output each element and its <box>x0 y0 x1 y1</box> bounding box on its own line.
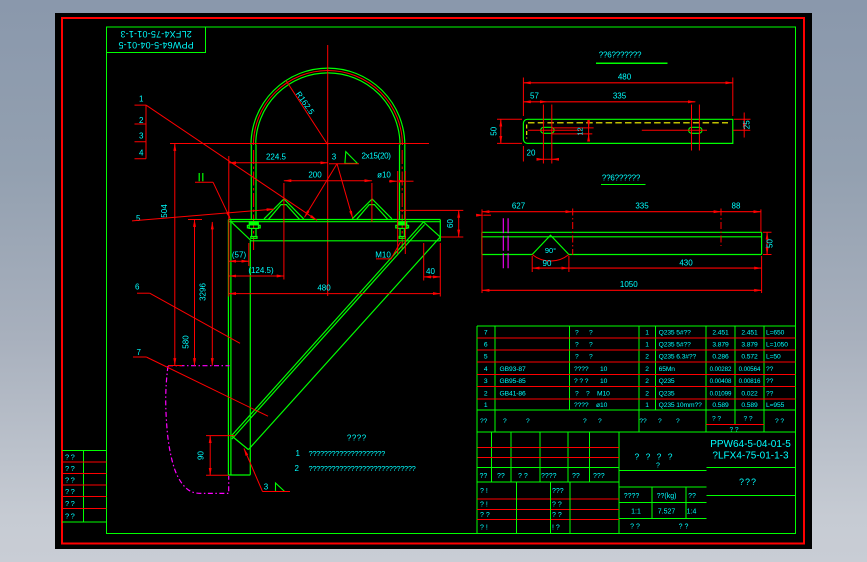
svg-text:3: 3 <box>332 153 337 162</box>
top-left mirrored title box <box>106 27 205 52</box>
bolt right <box>396 222 409 239</box>
svg-text:0.589: 0.589 <box>712 402 729 409</box>
svg-text:0.00816: 0.00816 <box>739 378 761 385</box>
arch mid red arc <box>253 71 402 146</box>
dim 480 <box>523 82 732 84</box>
svg-text:0.00282: 0.00282 <box>710 366 732 373</box>
svg-text:??: ?? <box>766 366 774 373</box>
slot left <box>541 127 554 133</box>
left tooth <box>264 199 304 219</box>
radius line R162.5 <box>286 81 328 145</box>
svg-text:? ? ?: ? ? ? <box>574 378 589 385</box>
svg-text:Q235 5#??: Q235 5#?? <box>659 329 692 336</box>
svg-text:?: ? <box>575 341 579 348</box>
svg-text:7.527: 7.527 <box>658 509 676 516</box>
svg-text:(57): (57) <box>232 251 247 260</box>
dim 3296 <box>211 222 213 366</box>
svg-text:????: ???? <box>574 366 589 373</box>
dim 57 <box>523 101 547 103</box>
svg-text:GB41-86: GB41-86 <box>500 390 526 397</box>
svg-text:?: ? <box>583 418 587 425</box>
svg-text:??6???????: ??6??????? <box>599 51 642 60</box>
dim 12 <box>552 120 594 137</box>
dim 50 <box>766 232 768 254</box>
dim 90 notch <box>532 267 569 269</box>
svg-text:?: ? <box>589 329 593 336</box>
svg-text:M10: M10 <box>597 390 610 397</box>
svg-text:5: 5 <box>484 354 488 361</box>
svg-text:? !: ? ! <box>480 502 488 509</box>
svg-text:480: 480 <box>618 73 632 82</box>
svg-text:0.00408: 0.00408 <box>710 378 732 385</box>
svg-text:L=650: L=650 <box>766 329 785 336</box>
svg-text:????: ???? <box>574 402 589 409</box>
svg-text:? ?: ? ? <box>630 524 640 531</box>
svg-text:? !: ? ! <box>480 488 488 495</box>
svg-text:PPW64-5-04-01-5: PPW64-5-04-01-5 <box>118 40 194 50</box>
notch <box>532 235 569 254</box>
svg-text:2LFX4-75-01-1-3: 2LFX4-75-01-1-3 <box>120 29 192 39</box>
svg-text:? ?: ? ? <box>730 426 739 433</box>
dim 1050 <box>482 289 762 291</box>
foot plate <box>228 474 250 476</box>
left marginal table <box>62 451 106 523</box>
svg-text:?: ? <box>526 418 530 425</box>
svg-text:ø10: ø10 <box>377 171 391 180</box>
svg-text:?: ? <box>575 354 579 361</box>
svg-text:? ? ? ?: ? ? ? ? <box>635 452 675 462</box>
svg-text:5: 5 <box>136 214 141 223</box>
svg-text:! ?: ! ? <box>552 525 560 532</box>
top dims 627/335/88 <box>482 211 573 213</box>
svg-text:??: ?? <box>65 453 76 462</box>
diagonal brace <box>232 222 440 450</box>
svg-text:????????????????????????????: ???????????????????????????? <box>309 464 416 473</box>
svg-text:90: 90 <box>543 259 552 268</box>
hidden yellow dashed <box>528 122 728 124</box>
svg-text:?: ? <box>575 329 579 336</box>
svg-text:?: ? <box>586 390 590 397</box>
svg-text:2: 2 <box>139 116 144 125</box>
beam left chamfer <box>232 222 251 240</box>
svg-text:2.451: 2.451 <box>741 329 758 336</box>
svg-text:??: ?? <box>639 418 647 425</box>
dim (57) <box>229 260 249 262</box>
svg-text:Q235: Q235 <box>659 390 675 397</box>
dim 40 <box>424 276 441 278</box>
svg-text:??: ?? <box>65 476 76 485</box>
svg-text:1:4: 1:4 <box>687 509 697 516</box>
arch inner arc <box>256 73 400 145</box>
svg-text:90: 90 <box>197 451 206 460</box>
svg-text:??: ?? <box>572 473 580 480</box>
svg-text:1: 1 <box>484 402 488 409</box>
svg-text:??: ?? <box>480 473 488 480</box>
svg-text:? ?: ? ? <box>775 418 784 425</box>
svg-text:?: ? <box>656 463 660 470</box>
right tooth <box>352 199 392 219</box>
svg-text:20: 20 <box>527 148 536 157</box>
arch legs <box>251 145 404 220</box>
svg-text:0.286: 0.286 <box>712 354 729 361</box>
svg-text:2: 2 <box>645 390 649 397</box>
svg-text:1: 1 <box>645 341 649 348</box>
svg-text:2: 2 <box>484 390 488 397</box>
svg-text:60: 60 <box>446 219 455 228</box>
svg-text:??6??????: ??6?????? <box>602 174 641 183</box>
svg-text:??: ?? <box>65 464 76 473</box>
svg-text:L=50: L=50 <box>766 354 781 361</box>
plate outline <box>523 119 732 143</box>
dim (124.5) <box>229 275 284 277</box>
svg-text:580: 580 <box>182 335 191 349</box>
green drawing frame <box>106 27 795 534</box>
dim 504 <box>174 144 176 366</box>
svg-text:??: ?? <box>65 512 76 521</box>
svg-text:1: 1 <box>645 402 649 409</box>
svg-text:?: ? <box>658 418 662 425</box>
svg-text:Q235: Q235 <box>659 378 675 385</box>
svg-text:430: 430 <box>679 258 693 267</box>
svg-text:??(kg): ??(kg) <box>657 493 677 500</box>
svg-text:504: 504 <box>160 204 169 218</box>
svg-text:12: 12 <box>576 127 585 135</box>
slot centerlines <box>528 105 581 164</box>
svg-text:? ?: ? ? <box>679 524 689 531</box>
svg-text:Q235 6.3#??: Q235 6.3#?? <box>659 354 697 361</box>
svg-text:1: 1 <box>139 95 144 104</box>
svg-text:???: ??? <box>739 477 757 487</box>
svg-text:3: 3 <box>139 131 144 140</box>
bar outline <box>482 232 762 254</box>
svg-text:?: ? <box>589 354 593 361</box>
svg-text:?: ? <box>503 418 507 425</box>
svg-text:2x15(20): 2x15(20) <box>362 152 392 161</box>
svg-text:PPW64-5-04-01-5: PPW64-5-04-01-5 <box>710 439 791 450</box>
magenta break lines <box>503 218 508 270</box>
svg-text:0.572: 0.572 <box>741 354 758 361</box>
svg-text:GB95-85: GB95-85 <box>500 378 526 385</box>
svg-text:??: ?? <box>65 487 76 496</box>
slot right <box>689 127 702 133</box>
svg-text:??: ?? <box>497 473 505 480</box>
svg-text:88: 88 <box>732 201 741 210</box>
svg-text:? ?: ? ? <box>552 512 562 519</box>
90 deg arc <box>532 255 569 262</box>
leg centerlines <box>254 150 403 252</box>
svg-text:?: ? <box>598 418 602 425</box>
svg-text:2: 2 <box>645 378 649 385</box>
arch outer arc <box>251 68 405 145</box>
VIEW1 : top right plate <box>489 51 751 164</box>
svg-text:10: 10 <box>600 366 608 373</box>
dim 60 right <box>458 210 460 237</box>
svg-text:GB93-87: GB93-87 <box>500 366 526 373</box>
svg-text:335: 335 <box>635 201 649 210</box>
svg-text:0.589: 0.589 <box>741 402 758 409</box>
svg-text:3: 3 <box>484 378 488 385</box>
svg-text:L=1050: L=1050 <box>766 341 788 348</box>
svg-text:????: ???? <box>541 473 557 480</box>
svg-text:0.022: 0.022 <box>741 390 758 397</box>
svg-text:0.00564: 0.00564 <box>739 366 761 373</box>
svg-text:7: 7 <box>137 348 142 357</box>
svg-text:?: ? <box>676 418 680 425</box>
centerlines <box>573 209 721 256</box>
beam bottom edge <box>251 240 440 242</box>
svg-text:M10: M10 <box>375 251 391 260</box>
MAIN VIEW <box>166 45 441 493</box>
svg-text:????: ???? <box>347 434 367 443</box>
dim 25 <box>743 119 745 130</box>
dim 430 <box>569 267 762 269</box>
label 11 <box>199 173 203 181</box>
svg-text:? !: ? ! <box>480 525 488 532</box>
bolt left <box>247 222 260 239</box>
svg-text:7: 7 <box>484 329 488 336</box>
svg-text:2: 2 <box>295 464 300 473</box>
svg-text:224.5: 224.5 <box>266 153 287 162</box>
dim 580 <box>194 220 196 366</box>
magenta pipe phantom outline <box>168 365 230 367</box>
dim 335 <box>547 101 695 103</box>
svg-text:L=955: L=955 <box>766 402 785 409</box>
TITLE BLOCK <box>477 432 796 534</box>
dim 224.5 <box>229 162 328 164</box>
svg-text:1: 1 <box>296 449 301 458</box>
BOM TABLE <box>477 326 796 534</box>
VIEW2 : right bar <box>482 174 774 294</box>
svg-text:1: 1 <box>645 329 649 336</box>
svg-text:????: ???? <box>624 493 640 500</box>
MAIN DIMS <box>132 95 463 492</box>
svg-text:90°: 90° <box>545 246 556 255</box>
svg-text:?LFX4-75-01-1-3: ?LFX4-75-01-1-3 <box>712 451 789 462</box>
svg-text:?: ? <box>589 341 593 348</box>
svg-text:4: 4 <box>484 366 488 373</box>
svg-text:57: 57 <box>530 92 539 101</box>
dim 90 lower <box>209 436 211 476</box>
svg-text:1:1: 1:1 <box>631 509 641 516</box>
svg-text:??: ?? <box>766 390 774 397</box>
svg-text:?: ? <box>575 390 579 397</box>
svg-text:2: 2 <box>645 366 649 373</box>
dim 50 <box>500 119 502 143</box>
dim 200 <box>284 180 372 182</box>
svg-text:??: ?? <box>688 493 696 500</box>
dim 480 main <box>229 293 440 295</box>
svg-text:???: ??? <box>552 488 564 495</box>
svg-text:? ?: ? ? <box>518 473 528 480</box>
svg-text:4: 4 <box>139 148 144 157</box>
svg-text:3.879: 3.879 <box>741 341 758 348</box>
svg-text:??: ?? <box>480 418 488 425</box>
svg-text:3.879: 3.879 <box>712 341 729 348</box>
svg-text:Q235 10mm??: Q235 10mm?? <box>659 402 703 409</box>
svg-text:? ?: ? ? <box>480 512 490 519</box>
dim 20 <box>537 158 544 160</box>
svg-text:627: 627 <box>512 201 526 210</box>
svg-text:??: ?? <box>766 378 774 385</box>
gusset vertical <box>249 241 251 475</box>
svg-text:ø10: ø10 <box>596 402 608 409</box>
svg-text:(124.5): (124.5) <box>248 266 274 275</box>
beam top chord <box>228 220 440 222</box>
svg-text:65Mn: 65Mn <box>659 366 676 373</box>
svg-text:????????????????????: ???????????????????? <box>309 449 386 458</box>
svg-text:335: 335 <box>613 92 627 101</box>
svg-text:40: 40 <box>426 267 435 276</box>
beam right end <box>424 220 441 242</box>
arch center crosshair <box>170 45 429 296</box>
svg-text:1050: 1050 <box>620 280 638 289</box>
svg-text:? ?: ? ? <box>552 502 562 509</box>
svg-text:? ?: ? ? <box>712 416 721 423</box>
svg-text:0.01099: 0.01099 <box>710 390 732 397</box>
svg-text:200: 200 <box>308 171 322 180</box>
svg-text:3: 3 <box>264 483 269 492</box>
svg-text:25: 25 <box>743 120 752 129</box>
svg-text:6: 6 <box>484 341 488 348</box>
svg-text:480: 480 <box>317 284 331 293</box>
svg-text:10: 10 <box>600 378 608 385</box>
svg-text:??: ?? <box>65 499 76 508</box>
svg-text:???: ??? <box>593 473 605 480</box>
svg-text:2.451: 2.451 <box>712 329 729 336</box>
svg-text:Q235 5#??: Q235 5#?? <box>659 341 692 348</box>
svg-text:? ?: ? ? <box>744 416 753 423</box>
svg-text:6: 6 <box>135 283 140 292</box>
svg-text:3296: 3296 <box>199 283 208 301</box>
svg-text:50: 50 <box>489 126 498 135</box>
svg-text:50: 50 <box>765 239 774 248</box>
svg-text:2: 2 <box>645 354 649 361</box>
post pair <box>228 220 231 476</box>
